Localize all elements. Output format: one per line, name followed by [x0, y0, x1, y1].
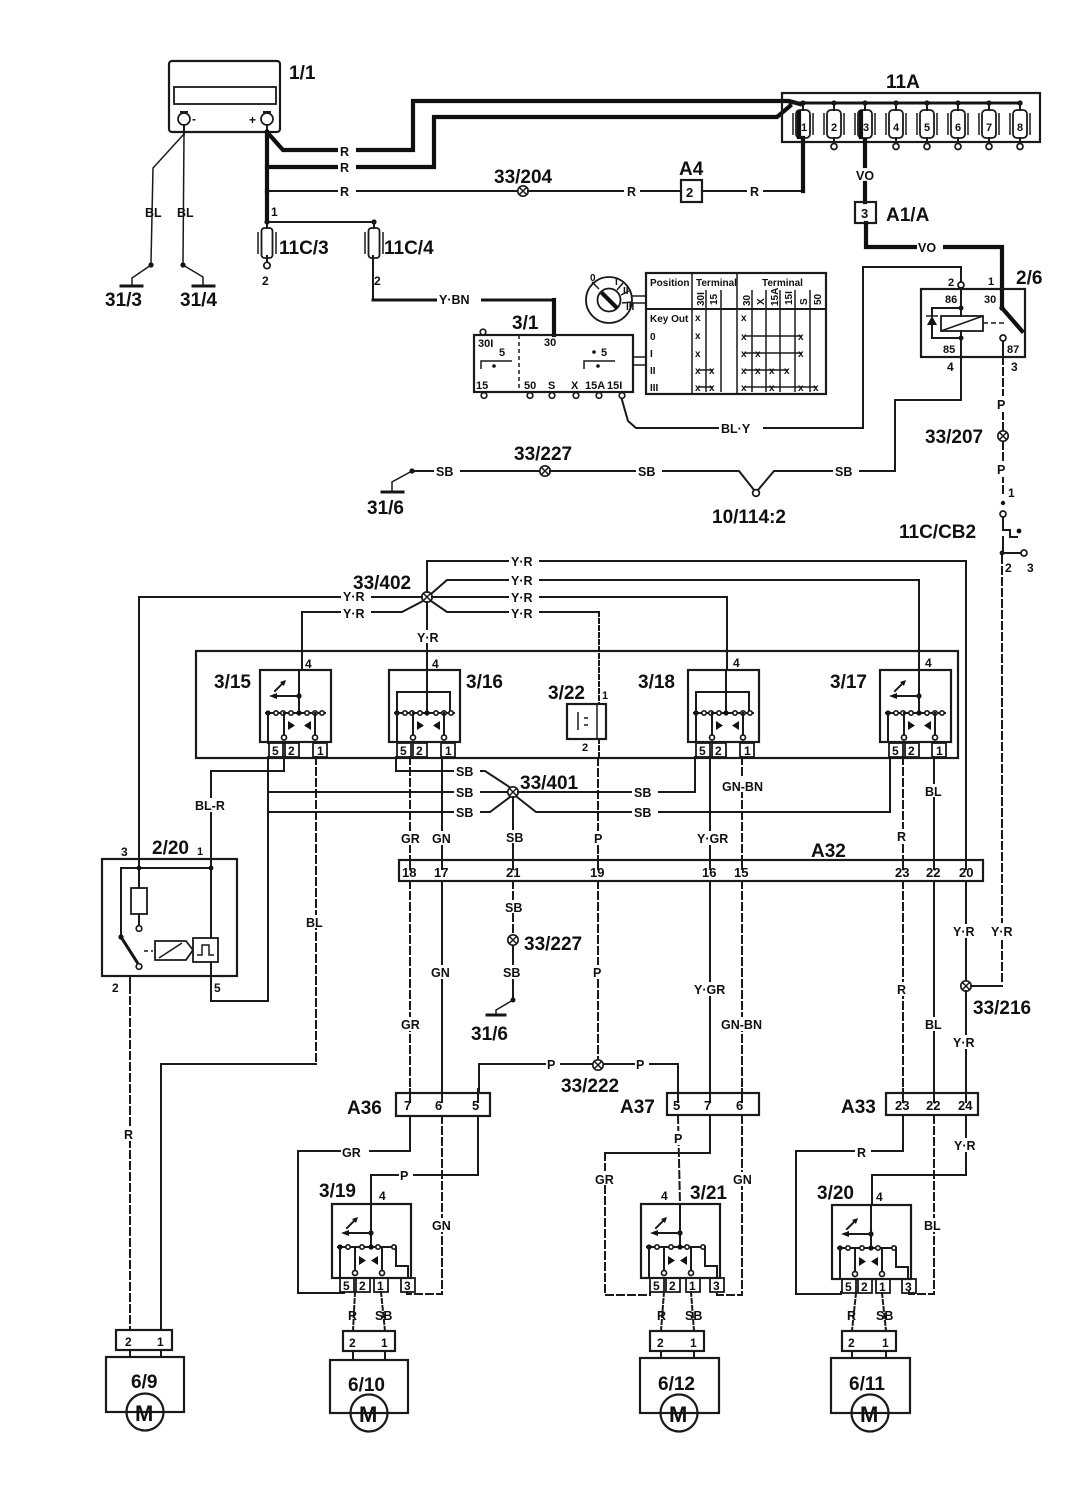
- svg-text:A1/A: A1/A: [886, 205, 930, 226]
- svg-text:GR: GR: [401, 832, 420, 846]
- svg-text:1: 1: [197, 846, 203, 858]
- svg-text:GN: GN: [733, 1173, 752, 1187]
- wire BL A33 pin22 to 3/20 pin3: [909, 1116, 945, 1294]
- svg-text:11C/3: 11C/3: [279, 238, 329, 259]
- splice 33/204: [494, 167, 553, 196]
- svg-text:R: R: [348, 1309, 357, 1323]
- splice 33/227 (lower): [508, 934, 582, 955]
- wire battery minus to ground 31/3 (BL): [132, 134, 184, 285]
- wire SB A32 pin21 to splice 33/227: [503, 881, 529, 934]
- svg-text:4: 4: [876, 1190, 883, 1204]
- svg-text:+: +: [249, 113, 256, 127]
- relay 2/20 (window lift relay): [102, 838, 237, 995]
- svg-text:2: 2: [948, 277, 954, 289]
- ground 31/6 (upper): [367, 468, 415, 519]
- svg-text:Y·R: Y·R: [343, 607, 365, 621]
- splice 33/207: [925, 427, 1008, 448]
- svg-text:3: 3: [861, 206, 868, 221]
- svg-text:50: 50: [813, 293, 824, 305]
- svg-text:GR: GR: [595, 1173, 614, 1187]
- wire SB splice 33/401 to A32 pin 21: [505, 797, 531, 860]
- svg-text:Y·R: Y·R: [511, 574, 533, 588]
- svg-text:M: M: [135, 1401, 153, 1426]
- svg-text:15A: 15A: [585, 380, 605, 392]
- svg-text:33/222: 33/222: [561, 1076, 619, 1097]
- svg-text:R: R: [627, 185, 636, 199]
- wire Y-R CB2 down to 33/216: [1001, 556, 1003, 985]
- svg-text:2: 2: [861, 1280, 868, 1294]
- wire SB 3/19 pin1 to 6/10 connector: [375, 1292, 392, 1331]
- wire R 3/21 pin2 to 6/12 connector: [657, 1292, 666, 1331]
- wire SB splice to 10/114:2: [550, 464, 754, 490]
- svg-text:30: 30: [742, 294, 753, 306]
- svg-text:30: 30: [984, 294, 996, 306]
- fuse 6 (11A): [948, 100, 968, 149]
- svg-text:33/207: 33/207: [925, 427, 983, 448]
- svg-text:5: 5: [924, 122, 930, 134]
- wire VO fuse 3 to A1/A: [856, 140, 874, 202]
- wire GR A36 pin7 to 3/19 pin5: [298, 1116, 410, 1293]
- wire 3/15 pin5 riser to 2/20 pin 5: [211, 757, 268, 1001]
- svg-text:3: 3: [1027, 561, 1034, 575]
- svg-text:P: P: [547, 1058, 555, 1072]
- svg-text:2: 2: [359, 1279, 366, 1293]
- svg-text:GN: GN: [432, 832, 451, 846]
- svg-text:2: 2: [416, 744, 423, 758]
- svg-text:19: 19: [590, 865, 604, 880]
- svg-text:GN-BN: GN-BN: [722, 780, 763, 794]
- svg-text:15I: 15I: [784, 291, 795, 305]
- connector above 6/11: [842, 1331, 896, 1358]
- motor 6/11: [831, 1358, 910, 1432]
- svg-text:A32: A32: [811, 841, 846, 862]
- svg-text:x: x: [709, 383, 715, 394]
- svg-text:1/1: 1/1: [289, 63, 316, 84]
- svg-text:6/10: 6/10: [348, 1375, 385, 1396]
- svg-text:6/9: 6/9: [131, 1372, 157, 1393]
- svg-text:Y·R: Y·R: [953, 925, 975, 939]
- svg-text:x: x: [784, 366, 790, 377]
- svg-text:17: 17: [434, 865, 448, 880]
- wire R battery plus to 33/204 / A4 / fuse 1: [267, 167, 518, 199]
- connector A1/A pin 3: [855, 202, 930, 226]
- svg-text:x: x: [741, 313, 747, 324]
- svg-text:30I: 30I: [696, 292, 707, 306]
- svg-text:R: R: [857, 1146, 866, 1160]
- svg-text:x: x: [769, 366, 775, 377]
- svg-text:1: 1: [689, 1279, 696, 1293]
- svg-text:x: x: [755, 366, 761, 377]
- svg-text:P: P: [997, 463, 1005, 477]
- wire GN A32 pin17 to A36 pin6: [428, 881, 454, 1093]
- svg-text:31/6: 31/6: [471, 1024, 508, 1045]
- svg-text:x: x: [695, 349, 701, 360]
- ground 31/4: [180, 286, 217, 311]
- connector A36: [347, 1089, 490, 1119]
- svg-text:2: 2: [582, 742, 588, 754]
- svg-text:III: III: [650, 383, 659, 394]
- svg-text:Y·R: Y·R: [343, 590, 365, 604]
- svg-text:18: 18: [402, 865, 416, 880]
- wire SB 3/20 pin1 to 6/11 connector: [876, 1293, 893, 1331]
- svg-text:x: x: [741, 349, 747, 360]
- svg-text:10/114:2: 10/114:2: [712, 507, 786, 528]
- svg-text:3/19: 3/19: [319, 1181, 356, 1202]
- svg-text:33/204: 33/204: [494, 167, 553, 188]
- node 1 of fuse 11C/3: [264, 191, 376, 225]
- wire BL 3/17 pin1 to A32 pin 22: [924, 757, 948, 860]
- svg-text:3/22: 3/22: [548, 683, 585, 704]
- wire Y-R splice to 3/15 pin 4: [302, 601, 423, 670]
- svg-text:R: R: [340, 185, 349, 199]
- svg-text:X: X: [571, 380, 579, 392]
- svg-text:I: I: [615, 277, 618, 288]
- svg-text:A36: A36: [347, 1098, 382, 1119]
- svg-text:11A: 11A: [886, 72, 920, 93]
- svg-text:BL: BL: [177, 206, 194, 220]
- wire BL A32 pin22 to A33 pin22: [922, 881, 946, 1093]
- svg-text:x: x: [755, 349, 761, 360]
- svg-text:21: 21: [506, 865, 520, 880]
- svg-text:R: R: [897, 830, 906, 844]
- splice 33/222: [561, 1060, 619, 1097]
- svg-text:2: 2: [657, 1336, 664, 1350]
- svg-text:4: 4: [733, 656, 740, 670]
- svg-text:11C/CB2: 11C/CB2: [899, 522, 976, 543]
- svg-text:1: 1: [744, 744, 751, 758]
- svg-text:4: 4: [893, 122, 900, 134]
- wire BL horizontal to 6/9 pin1: [161, 1064, 316, 1330]
- svg-text:30I: 30I: [478, 338, 493, 350]
- svg-text:P: P: [594, 832, 602, 846]
- svg-text:x: x: [798, 383, 804, 394]
- svg-text:2: 2: [848, 1336, 855, 1350]
- fuse 3 (11A): [855, 100, 875, 138]
- wire Y-R splice down to 3/16 pin 4: [415, 602, 445, 670]
- wire GR A32 pin18 to A36 pin7: [398, 881, 424, 1093]
- svg-text:3: 3: [905, 1280, 912, 1294]
- svg-text:1: 1: [377, 1279, 384, 1293]
- svg-text:BL-R: BL-R: [195, 799, 225, 813]
- ignition key symbol: [586, 273, 646, 323]
- connector above 6/12: [650, 1331, 704, 1358]
- svg-text:5: 5: [601, 347, 607, 359]
- svg-text:5: 5: [400, 744, 407, 758]
- svg-text:1: 1: [801, 122, 807, 134]
- svg-text:1: 1: [988, 276, 994, 288]
- svg-text:I: I: [650, 349, 653, 360]
- svg-text:SB: SB: [506, 831, 523, 845]
- motor 6/9: [106, 1357, 184, 1431]
- wire Y-R A32 pin20 to splice 33/216: [950, 881, 1020, 981]
- wire GR A37 pin7 to 3/21 pin5: [594, 1116, 710, 1295]
- svg-text:x: x: [741, 383, 747, 394]
- fuse 11C/4: [365, 222, 434, 300]
- connector A33: [841, 1089, 978, 1118]
- svg-text:P: P: [997, 398, 1005, 412]
- svg-text:33/216: 33/216: [973, 998, 1031, 1019]
- wire SB 10/114:2 to relay 85 branch: [758, 464, 895, 490]
- svg-text:R: R: [340, 145, 349, 159]
- svg-text:5: 5: [653, 1279, 660, 1293]
- wire SB line C to 3/17 pin5: [268, 757, 890, 820]
- relay 2/6: [921, 268, 1042, 374]
- svg-text:GN: GN: [431, 966, 450, 980]
- svg-text:5: 5: [272, 744, 279, 758]
- svg-text:6: 6: [955, 122, 961, 134]
- svg-text:5: 5: [214, 981, 221, 995]
- wire P relay pin 3/87 down: [995, 357, 1011, 430]
- switch panel box: [196, 651, 958, 758]
- svg-text:1: 1: [157, 1335, 164, 1349]
- svg-text:SB: SB: [638, 465, 655, 479]
- svg-text:8: 8: [1017, 122, 1023, 134]
- circuit breaker 11C/CB2: [899, 501, 1021, 553]
- wire Y-R splice left to 2/20 pin 3: [139, 589, 422, 859]
- svg-text:6/12: 6/12: [658, 1374, 695, 1395]
- svg-text:BL·Y: BL·Y: [721, 422, 751, 436]
- wire SB splice to ground 31/6: [496, 946, 527, 1014]
- svg-text:6: 6: [736, 1098, 743, 1113]
- svg-text:M: M: [860, 1402, 878, 1427]
- svg-text:x: x: [695, 383, 701, 394]
- svg-text:1: 1: [271, 205, 278, 219]
- relay diode branch: [926, 308, 961, 338]
- svg-text:x: x: [695, 313, 701, 324]
- svg-text:15I: 15I: [607, 380, 622, 392]
- splice 33/402: [353, 573, 432, 602]
- svg-text:Terminal: Terminal: [696, 278, 737, 289]
- svg-text:x: x: [695, 331, 701, 342]
- svg-text:33/227: 33/227: [524, 934, 582, 955]
- svg-text:2/20: 2/20: [152, 838, 189, 859]
- battery 1/1: [169, 61, 316, 134]
- wire R A33 pin23 to 3/20 pin5: [796, 1116, 903, 1294]
- svg-text:S: S: [799, 298, 810, 305]
- svg-text:A4: A4: [679, 159, 704, 180]
- svg-text:3: 3: [713, 1279, 720, 1293]
- svg-text:Key Out: Key Out: [650, 314, 689, 325]
- connector A4 pin 2: [679, 159, 704, 202]
- svg-text:GR: GR: [401, 1018, 420, 1032]
- svg-text:4: 4: [379, 1189, 386, 1203]
- svg-text:x: x: [741, 332, 747, 343]
- switch 3/20: [817, 1183, 916, 1294]
- svg-text:P: P: [636, 1058, 644, 1072]
- table contact marks: [695, 313, 819, 394]
- svg-text:2: 2: [831, 122, 837, 134]
- wire BL-Y ignition 15I to riser: [622, 400, 863, 436]
- svg-text:50: 50: [524, 380, 536, 392]
- svg-text:2: 2: [669, 1279, 676, 1293]
- svg-text:Y·GR: Y·GR: [697, 832, 728, 846]
- svg-text:BL: BL: [145, 206, 162, 220]
- svg-text:SB: SB: [456, 786, 473, 800]
- svg-text:Y·GR: Y·GR: [694, 983, 725, 997]
- svg-text:Y·R: Y·R: [953, 1036, 975, 1050]
- svg-text:2: 2: [908, 744, 915, 758]
- svg-text:2: 2: [1005, 561, 1012, 575]
- svg-text:3: 3: [121, 845, 128, 859]
- svg-text:A33: A33: [841, 1097, 876, 1118]
- wire Y-R splice to A33 pin24: [950, 991, 982, 1093]
- switch 3/19: [319, 1181, 415, 1293]
- svg-text:5: 5: [472, 1098, 479, 1113]
- wire R 3/20 pin2 to 6/11 connector: [847, 1293, 856, 1331]
- svg-text:1: 1: [602, 690, 608, 702]
- wire VO A1/A to relay 2/6 pin 30: [866, 223, 1002, 308]
- svg-text:1: 1: [882, 1336, 889, 1350]
- svg-text:87: 87: [1007, 344, 1019, 356]
- svg-text:SB: SB: [634, 786, 651, 800]
- svg-text:5: 5: [892, 744, 899, 758]
- svg-text:P: P: [593, 966, 601, 980]
- svg-text:85: 85: [943, 344, 955, 356]
- wire BL 3/15 pin1 down: [305, 757, 329, 1064]
- svg-text:SB: SB: [436, 465, 453, 479]
- svg-text:3: 3: [1011, 360, 1018, 374]
- wire Y-GR A32 pin16 to A37 pin7: [691, 881, 733, 1093]
- svg-text:2: 2: [112, 981, 119, 995]
- svg-text:BL: BL: [924, 1219, 941, 1233]
- wire SB ground line: [412, 464, 540, 479]
- relay coil: [941, 288, 983, 357]
- svg-text:SB: SB: [835, 465, 852, 479]
- connector A37: [620, 1089, 759, 1118]
- svg-text:Y·R: Y·R: [511, 555, 533, 569]
- svg-text:M: M: [359, 1402, 377, 1427]
- svg-text:7: 7: [986, 122, 992, 134]
- svg-text:1: 1: [317, 744, 324, 758]
- connector 2-3 below CB2: [1000, 550, 1034, 575]
- svg-text:4: 4: [305, 657, 312, 671]
- wire BL-R 3/15 pin2 to 2/20 pin 1: [194, 757, 284, 859]
- ignition position table: [646, 273, 826, 394]
- svg-text:R: R: [340, 161, 349, 175]
- fuse 2 (11A): [824, 100, 844, 149]
- svg-text:1: 1: [879, 1280, 886, 1294]
- switch 3/22: [548, 683, 608, 758]
- svg-text:31/6: 31/6: [367, 498, 404, 519]
- wire R battery plus to fuse box (lower): [267, 106, 790, 175]
- wire 15I to BL-Y (drawn above) / stub: [621, 399, 623, 400]
- connector above 6/9: [116, 1330, 172, 1357]
- connector A32: [399, 841, 983, 881]
- svg-text:Y·R: Y·R: [511, 607, 533, 621]
- fuse 11C/3: [258, 222, 329, 288]
- svg-text:4: 4: [432, 657, 439, 671]
- svg-text:Y·R: Y·R: [991, 925, 1013, 939]
- svg-text:86: 86: [945, 294, 957, 306]
- fuse 7 (11A): [979, 100, 999, 149]
- svg-text:GN: GN: [432, 1219, 451, 1233]
- fuse 4 (11A): [886, 100, 906, 149]
- svg-text:5: 5: [845, 1280, 852, 1294]
- svg-text:SB: SB: [685, 1309, 702, 1323]
- wire GN A37 pin6 to 3/21 pin3: [717, 1116, 756, 1295]
- svg-text:R: R: [657, 1309, 666, 1323]
- svg-text:x: x: [798, 332, 804, 343]
- svg-text:SB: SB: [456, 806, 473, 820]
- svg-text:33/401: 33/401: [520, 773, 579, 794]
- svg-text:VO: VO: [918, 241, 936, 255]
- 2/20 internals: [118, 859, 218, 986]
- connector above 6/10: [343, 1331, 395, 1360]
- svg-text:15: 15: [734, 865, 748, 880]
- wire SB 3/16 pin5 to splice 33/401: [396, 757, 511, 788]
- svg-text:R: R: [124, 1128, 133, 1142]
- svg-text:SB: SB: [503, 966, 520, 980]
- wire Y-R splice to 3/22 pin 1: [431, 601, 599, 704]
- wire GR 3/16 pin2 to A32 pin 18: [398, 757, 424, 860]
- svg-text:24: 24: [958, 1098, 973, 1113]
- svg-text:33/227: 33/227: [514, 444, 572, 465]
- svg-text:5: 5: [673, 1098, 680, 1113]
- wire Y-BN 11C/4 to ignition switch 30: [373, 293, 554, 335]
- svg-text:6/11: 6/11: [849, 1374, 885, 1395]
- ground 31/3: [105, 286, 142, 311]
- wire P A37 pin5 to 3/21 pin4: [671, 1116, 685, 1204]
- svg-text:2: 2: [349, 1336, 356, 1350]
- svg-text:20: 20: [959, 865, 973, 880]
- connector 10/114:2: [712, 490, 786, 528]
- svg-text:15: 15: [709, 293, 720, 305]
- svg-text:SB: SB: [876, 1309, 893, 1323]
- motor 6/10: [330, 1360, 408, 1432]
- svg-text:22: 22: [926, 865, 940, 880]
- svg-text:4: 4: [925, 656, 932, 670]
- svg-text:BL: BL: [306, 916, 323, 930]
- svg-text:2: 2: [374, 274, 381, 288]
- wire 3/1 box to table: [633, 357, 646, 365]
- splice 33/216: [961, 981, 1031, 1019]
- wire SB 3/21 pin1 to 6/12 connector: [685, 1292, 702, 1331]
- wire R 3/19 pin2 to 6/10 connector: [348, 1292, 357, 1331]
- svg-text:3/17: 3/17: [830, 672, 867, 693]
- svg-text:1: 1: [690, 1336, 697, 1350]
- splice 33/227 (upper): [514, 444, 572, 476]
- wire relay pin 4/85 to SB line: [895, 357, 961, 471]
- wire SB line B left (3/15 pin5) to splice: [268, 785, 508, 800]
- wire Y-GR 3/18 pin2 to A32 pin 16: [694, 757, 736, 860]
- svg-text:3/16: 3/16: [466, 672, 503, 693]
- wire GN A36 pin6 to 3/19 pin3: [407, 1116, 455, 1294]
- splice 33/401: [508, 773, 579, 797]
- fuse 5 (11A): [917, 100, 937, 149]
- svg-text:1: 1: [445, 744, 452, 758]
- svg-text:M: M: [669, 1402, 687, 1427]
- wire GN 3/16 pin1 to A32 pin 17: [429, 757, 455, 860]
- svg-text:Y·R: Y·R: [417, 631, 439, 645]
- svg-text:6: 6: [435, 1098, 442, 1113]
- wire GN-BN A32 pin15 to A37 pin6: [718, 881, 770, 1093]
- svg-text:x: x: [798, 349, 804, 360]
- wire R splice to A4: [528, 184, 681, 199]
- svg-text:3/21: 3/21: [690, 1183, 727, 1204]
- svg-text:11C/4: 11C/4: [384, 238, 434, 259]
- svg-text:23: 23: [895, 865, 909, 880]
- wire GN-BN 3/18 pin1 to A32 pin 15: [721, 757, 769, 860]
- svg-text:23: 23: [895, 1098, 909, 1113]
- svg-text:Y·R: Y·R: [511, 591, 533, 605]
- svg-text:x: x: [695, 366, 701, 377]
- wire Y-R splice to 3/17 pin 4: [431, 573, 919, 670]
- switch 3/17: [830, 656, 951, 758]
- svg-text:7: 7: [404, 1098, 411, 1113]
- relay switch arm 30-87: [983, 305, 1022, 357]
- switch 3/18: [638, 656, 759, 758]
- svg-text:Y·R: Y·R: [954, 1139, 976, 1153]
